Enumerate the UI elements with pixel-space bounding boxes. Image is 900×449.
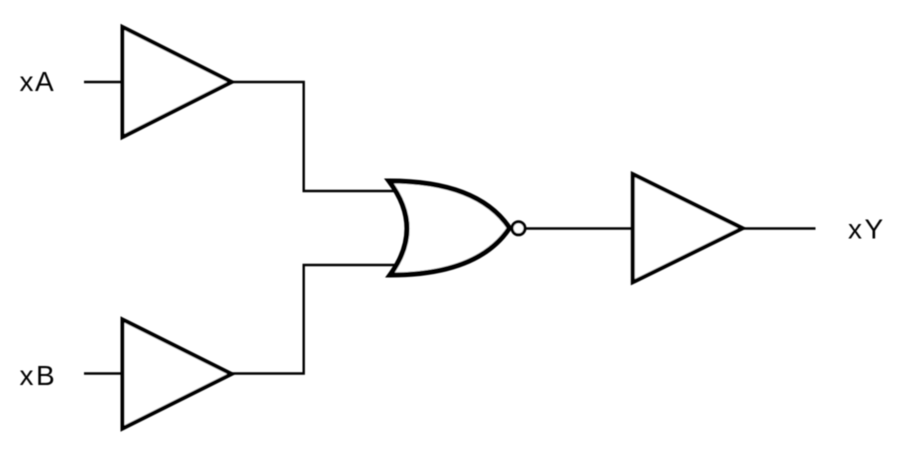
- wire input B: [84, 372, 122, 374]
- NOR gate U3 body: [389, 181, 510, 275]
- svg-text:xB: xB: [20, 360, 58, 391]
- buffer U4 (output): [633, 174, 743, 282]
- NOR gate inversion bubble: [512, 222, 525, 235]
- svg-text:xA: xA: [20, 66, 56, 97]
- wire buffer2 output to NOR bottom input: [231, 265, 397, 374]
- buffer U2 (input B): [123, 320, 232, 429]
- wire buffer1 output to NOR top input: [231, 82, 397, 191]
- wire input A: [84, 81, 122, 83]
- svg-text:xY: xY: [848, 214, 886, 245]
- wire output Y: [741, 227, 816, 229]
- buffer U1 (input A): [123, 27, 232, 137]
- wire NOR output to buffer3: [524, 227, 634, 229]
